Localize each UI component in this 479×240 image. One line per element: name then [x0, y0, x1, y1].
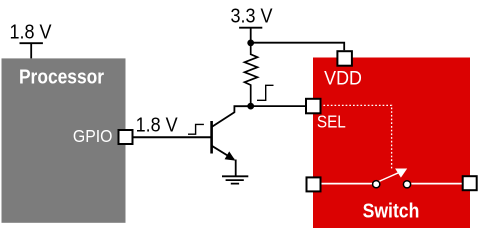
- ground: [222, 176, 248, 183]
- svg-text:SEL: SEL: [317, 111, 346, 131]
- wire: emitter to ground: [235, 160, 237, 177]
- wire: left switch pin to pole: [321, 183, 372, 185]
- pin: GPIO: [119, 130, 133, 144]
- svg-text:1.8 V: 1.8 V: [136, 115, 178, 137]
- wire: 3.3V node to VDD pin: [251, 43, 345, 51]
- switch arm: [377, 172, 400, 182]
- control arrow: [395, 169, 407, 178]
- processor block: [2, 58, 126, 222]
- 3.3 V supply bar symbol: [239, 28, 262, 43]
- switch pole contact: [373, 181, 380, 188]
- wire: GPIO pin to transistor base: [133, 136, 212, 138]
- svg-text:Switch: Switch: [363, 199, 420, 221]
- transistor Q1 emitter arrow: [225, 151, 236, 160]
- rising-edge symbol at SEL: [257, 85, 274, 100]
- pin: switch right: [463, 176, 477, 190]
- svg-text:3.3 V: 3.3 V: [231, 6, 273, 28]
- svg-text:GPIO: GPIO: [73, 126, 113, 146]
- svg-text:1.8 V: 1.8 V: [10, 22, 52, 44]
- svg-text:Processor: Processor: [19, 65, 104, 87]
- switch block: [313, 58, 470, 229]
- node A junction dot: [247, 40, 254, 47]
- pin: switch left: [307, 177, 321, 191]
- switch throw contact: [403, 181, 410, 188]
- wire: node B to SEL pin: [251, 105, 306, 107]
- svg-text:VDD: VDD: [324, 67, 362, 89]
- 1.8 V supply bar symbol: [20, 43, 43, 58]
- transistor Q1 base bar: [210, 121, 213, 154]
- transistor Q1 emitter: [212, 146, 234, 160]
- resistor R1: [245, 43, 258, 106]
- rising-edge symbol at base: [188, 124, 204, 134]
- dashed control line SEL to switch arm: [323, 105, 391, 170]
- pin: VDD: [337, 51, 352, 65]
- node B junction dot: [247, 103, 254, 110]
- pin: SEL: [306, 99, 321, 114]
- transistor Q1 collector: [212, 106, 251, 127]
- wire: throw to right switch pin: [411, 183, 462, 185]
